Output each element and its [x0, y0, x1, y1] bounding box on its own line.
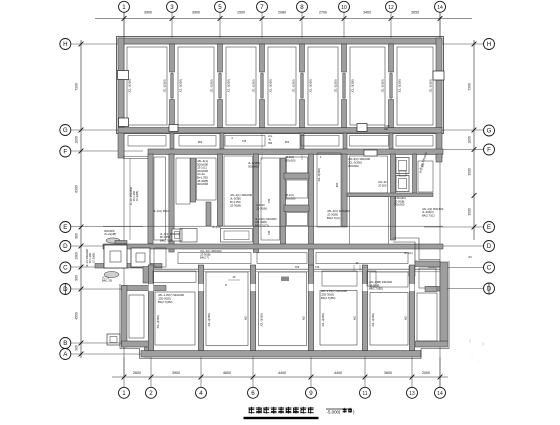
- svg-text:3900: 3900: [172, 371, 180, 375]
- svg-text:6: 6: [251, 390, 255, 397]
- svg-text:300x300: 300x300: [285, 158, 296, 162]
- svg-text:M2: M2: [302, 316, 306, 320]
- svg-text:350: 350: [268, 142, 273, 145]
- svg-text:M2: M2: [404, 316, 408, 320]
- svg-text:JZL-2(350): JZL-2(350): [163, 79, 167, 92]
- svg-text:B: B: [63, 340, 67, 347]
- svg-text:960: 960: [75, 233, 79, 239]
- svg-text:3900: 3900: [192, 11, 200, 15]
- svg-text:900: 900: [75, 275, 79, 281]
- svg-text:JCL-3(350): JCL-3(350): [227, 79, 231, 93]
- svg-text:JZ-1(C): JZ-1(C): [285, 155, 294, 159]
- svg-text:740: 740: [267, 198, 271, 203]
- svg-text:B4(2.7)(C): B4(2.7)(C): [422, 213, 435, 217]
- svg-text:300x300: 300x300: [285, 196, 296, 200]
- svg-text:M2: M2: [353, 316, 357, 320]
- svg-text:B4(2.7)(C): B4(2.7)(C): [327, 216, 340, 220]
- svg-text:902: 902: [335, 182, 339, 187]
- svg-text:1800: 1800: [468, 136, 472, 144]
- svg-text:744: 744: [315, 265, 320, 269]
- svg-text:JCL-3(350): JCL-3(350): [207, 313, 211, 327]
- svg-text:(: (: [469, 338, 471, 343]
- svg-text:JCL-3(350): JCL-3(350): [398, 79, 402, 93]
- svg-text:4600: 4600: [223, 371, 231, 375]
- svg-text:JZ-1(C): JZ-1(C): [404, 251, 413, 255]
- svg-text:14: 14: [437, 5, 443, 11]
- svg-text:JZL-2(350): JZL-2(350): [292, 79, 296, 92]
- svg-text:4500: 4500: [75, 312, 79, 320]
- svg-text:2600: 2600: [133, 371, 141, 375]
- svg-text:D: D: [487, 243, 492, 250]
- svg-text:B4(2.7)(B2): B4(2.7)(B2): [158, 300, 173, 304]
- svg-text:JCL-3(350): JCL-3(350): [128, 79, 132, 93]
- svg-text:JCL-2(350): JCL-2(350): [317, 168, 321, 182]
- svg-text:30: 30: [233, 276, 236, 279]
- svg-text:JZL-2(350): JZL-2(350): [210, 79, 214, 92]
- svg-text:x60: x60: [384, 128, 389, 131]
- svg-text:300x600: 300x600: [248, 164, 259, 168]
- svg-text:1800: 1800: [75, 136, 79, 144]
- svg-text:JCL-3(350): JCL-3(350): [156, 315, 160, 329]
- svg-text:3050: 3050: [411, 11, 419, 15]
- svg-text:): ): [482, 341, 484, 346]
- svg-text:JCL-3(350): JCL-3(350): [309, 79, 313, 93]
- svg-text:D: D: [63, 243, 68, 250]
- svg-text:JZ-300: JZ-300: [378, 183, 387, 187]
- svg-text:3400: 3400: [363, 11, 371, 15]
- svg-text:JZ-1(C): JZ-1(C): [285, 193, 294, 197]
- svg-text:3900: 3900: [144, 11, 152, 15]
- svg-text:4: 4: [231, 136, 233, 140]
- svg-text:745: 745: [242, 139, 247, 143]
- svg-text:G: G: [63, 127, 68, 134]
- svg-text:740: 740: [267, 230, 271, 235]
- svg-text:JC-2a(4B): JC-2a(4B): [104, 232, 116, 236]
- svg-text:300x300: 300x300: [394, 203, 405, 207]
- svg-text:1: 1: [122, 4, 126, 11]
- svg-text:B4(2.7)(B2): B4(2.7)(B2): [321, 296, 336, 300]
- svg-text:M2: M2: [244, 316, 248, 320]
- svg-text:JZL-2(350): JZL-2(350): [334, 79, 338, 92]
- svg-text:13: 13: [409, 391, 415, 397]
- svg-text:2700: 2700: [319, 11, 327, 15]
- svg-text:H: H: [63, 41, 67, 48]
- svg-text:1: 1: [320, 155, 322, 159]
- svg-text:9: 9: [309, 390, 313, 397]
- svg-text:3: 3: [170, 4, 174, 11]
- svg-text:4: 4: [199, 390, 203, 397]
- svg-text:763: 763: [295, 265, 300, 269]
- svg-text:JCL-3(350): JCL-3(350): [260, 313, 264, 327]
- svg-text:JL-(C2): JL-(C2): [212, 225, 221, 229]
- svg-text:6300: 6300: [75, 185, 79, 193]
- svg-text:H: H: [487, 41, 491, 48]
- svg-text:2080: 2080: [278, 11, 286, 15]
- svg-text:4400: 4400: [278, 371, 286, 375]
- svg-text:962: 962: [198, 140, 203, 144]
- svg-text:5: 5: [218, 4, 222, 11]
- svg-text:962: 962: [285, 140, 290, 144]
- svg-text:JCL-3(350): JCL-3(350): [351, 79, 355, 93]
- svg-text:B4(2.7)(C2): B4(2.7)(C2): [255, 223, 269, 227]
- svg-text:B4(1.35): B4(1.35): [102, 279, 112, 283]
- svg-text:3000: 3000: [468, 208, 472, 216]
- svg-text:1500: 1500: [237, 11, 245, 15]
- svg-text:JZL-2(350): JZL-2(350): [381, 79, 385, 92]
- svg-text:-5.000(: -5.000(: [327, 410, 341, 415]
- svg-text:JZ-30(B): JZ-30(B): [230, 204, 241, 208]
- svg-text:380: 380: [75, 345, 79, 351]
- svg-text:2000: 2000: [422, 371, 430, 375]
- svg-text:8: 8: [300, 4, 304, 11]
- svg-text:Z3: Z3: [468, 255, 472, 259]
- svg-text:7300: 7300: [468, 83, 472, 91]
- svg-text:1080: 1080: [75, 252, 79, 260]
- svg-text:E: E: [487, 224, 491, 231]
- svg-text:JCL-3(350): JCL-3(350): [179, 79, 183, 93]
- svg-text:C: C: [63, 265, 68, 272]
- svg-text:.: .: [486, 348, 487, 353]
- svg-text:JCL-3(350): JCL-3(350): [321, 313, 325, 327]
- svg-text:300x600: 300x600: [348, 164, 359, 168]
- svg-text:F: F: [487, 147, 491, 154]
- svg-text:JZL-2(350): JZL-2(350): [429, 79, 433, 92]
- svg-text:JZ-30(B): JZ-30(B): [256, 206, 267, 210]
- svg-text:JCL-3(350): JCL-3(350): [269, 79, 273, 93]
- svg-text:C: C: [487, 265, 492, 272]
- svg-text:300x600: 300x600: [197, 182, 208, 186]
- svg-text:JZL-2(350): JZL-2(350): [252, 79, 256, 92]
- svg-text:B4(2.7)(B): B4(2.7)(B): [160, 238, 173, 242]
- svg-text:N: N: [225, 283, 227, 287]
- svg-text:2: 2: [149, 390, 153, 397]
- svg-text:E: E: [63, 224, 67, 231]
- svg-text:12: 12: [388, 5, 394, 11]
- svg-text:JZ-30(B): JZ-30(B): [91, 253, 95, 264]
- svg-text:G: G: [487, 128, 492, 135]
- svg-text:3000: 3000: [468, 168, 472, 176]
- svg-text:10: 10: [341, 5, 347, 11]
- svg-text:1: 1: [122, 390, 126, 397]
- svg-text:4400: 4400: [334, 371, 342, 375]
- svg-text:B4(2.7): B4(2.7): [200, 256, 209, 260]
- svg-text:-: -: [477, 358, 479, 363]
- svg-text:F: F: [63, 149, 67, 156]
- svg-text:14: 14: [437, 391, 443, 397]
- svg-text:-: -: [471, 351, 473, 356]
- svg-text:): ): [353, 410, 355, 415]
- svg-text:11: 11: [362, 391, 367, 397]
- svg-text:3600: 3600: [384, 371, 392, 375]
- svg-text:JCL-3(350): JCL-3(350): [371, 313, 375, 327]
- svg-text:7: 7: [260, 4, 264, 11]
- svg-text:JZ-30(B): JZ-30(B): [135, 191, 139, 202]
- svg-text:7300: 7300: [75, 83, 79, 91]
